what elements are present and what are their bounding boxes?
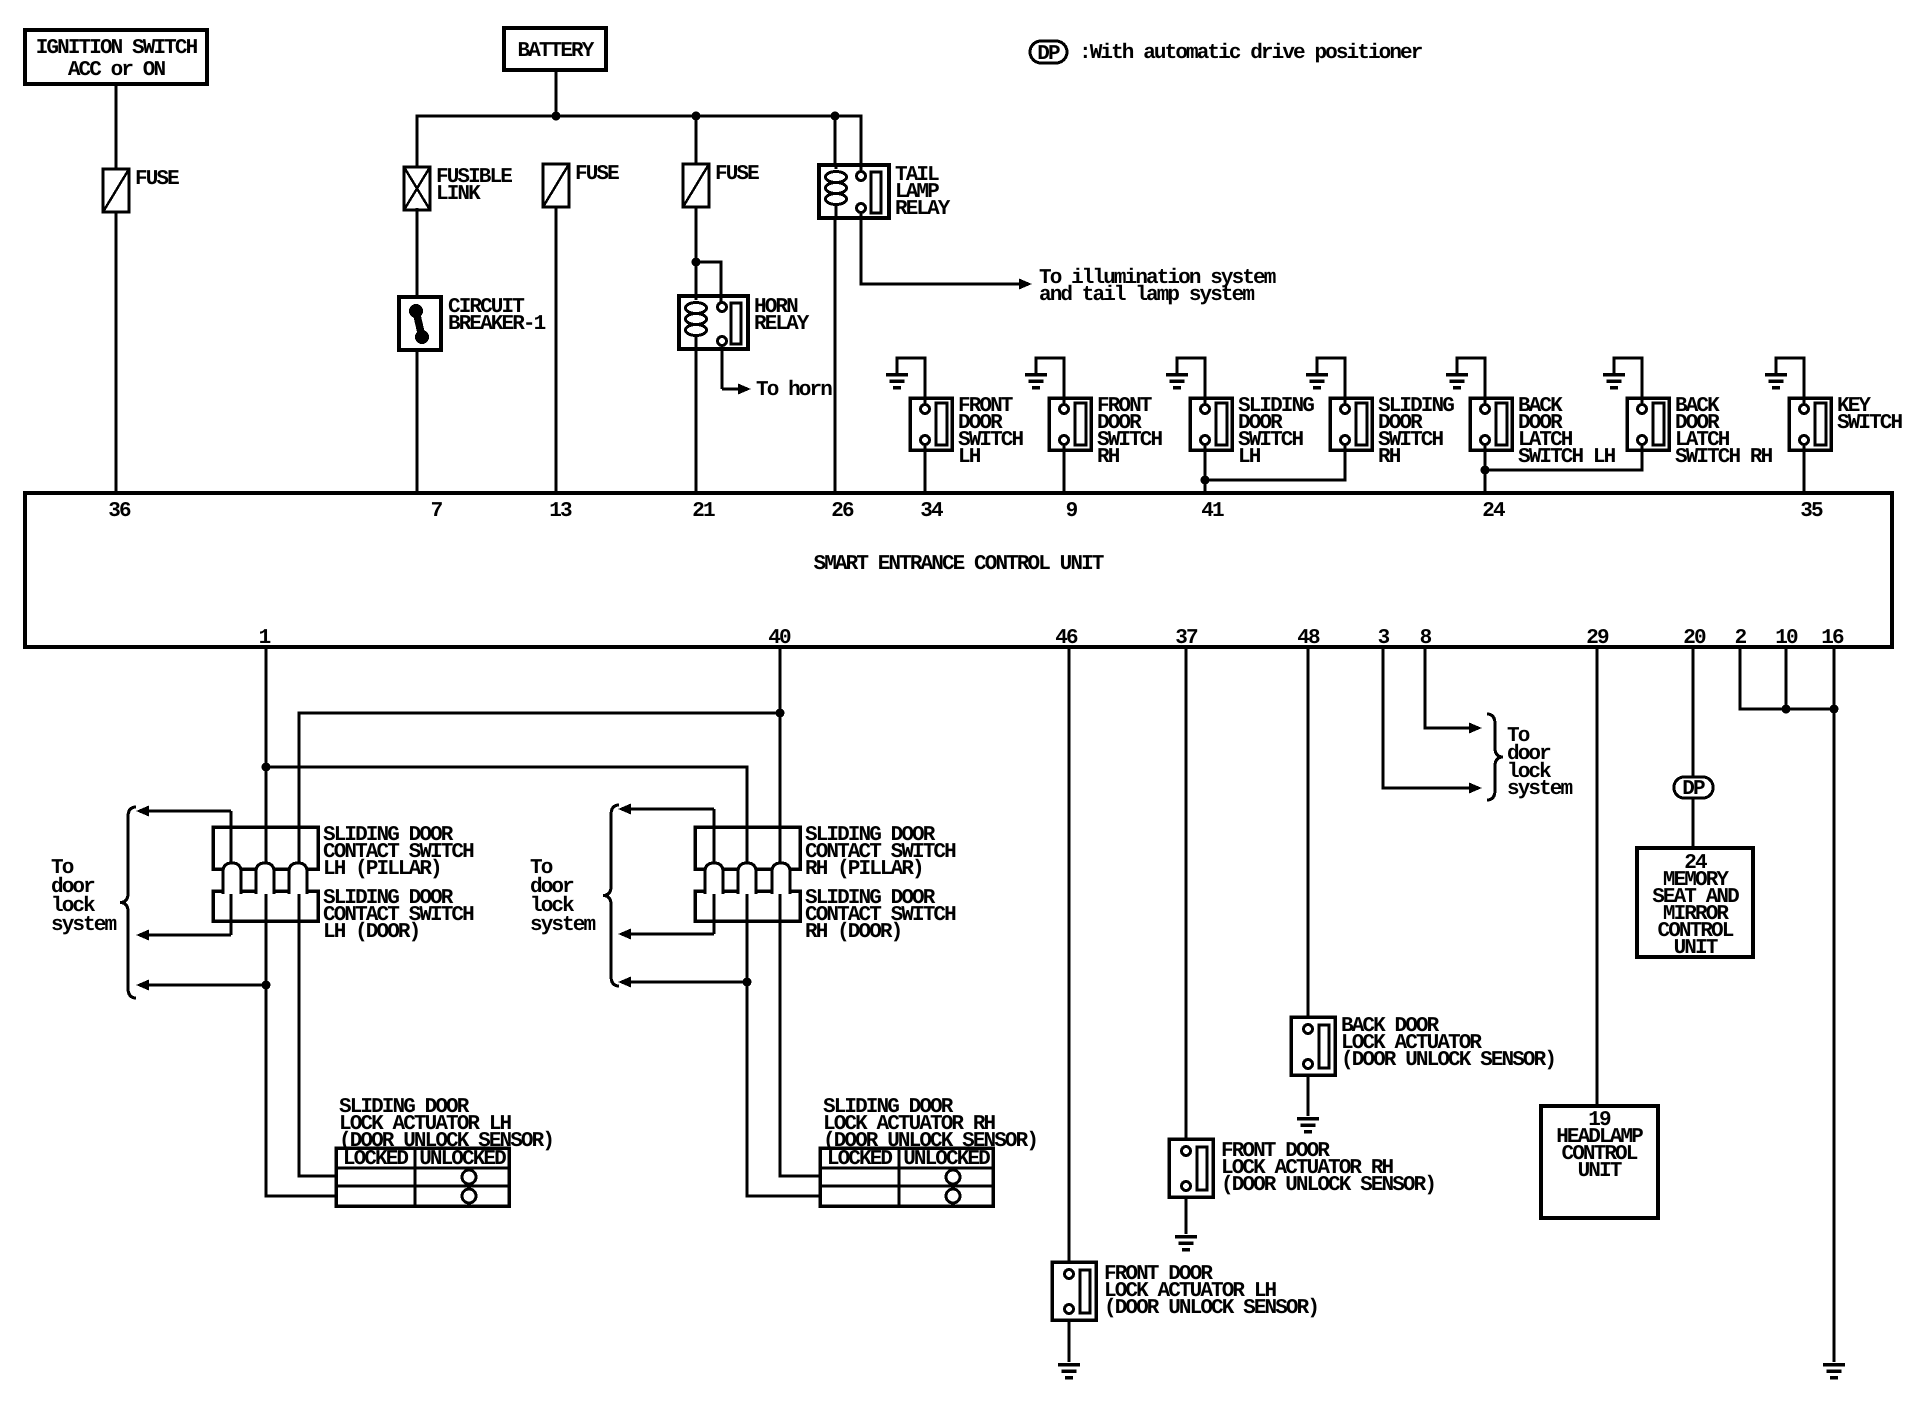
battery box — [504, 28, 606, 70]
svg-text:UNLOCKED: UNLOCKED — [419, 1148, 506, 1171]
svg-text:(DOOR UNLOCK SENSOR): (DOOR UNLOCK SENSOR) — [1104, 1297, 1318, 1320]
wire pin 29 to headlamp control unit — [1596, 647, 1599, 1106]
svg-text:LOCKED: LOCKED — [343, 1148, 409, 1171]
wire back door actuator to ground — [1307, 1075, 1310, 1116]
back door lock actuator — [1291, 1015, 1555, 1075]
text to door lock system LH — [51, 857, 117, 937]
svg-text:RH (PILLAR): RH (PILLAR) — [805, 858, 923, 881]
arrow LH mid to door lock system — [136, 930, 231, 941]
svg-text:20: 20 — [1683, 627, 1706, 650]
wire horn coil to pin 21 — [695, 349, 698, 493]
svg-text:and tail lamp system: and tail lamp system — [1039, 284, 1254, 307]
wire fusible link to breaker — [416, 208, 419, 297]
ignition switch box — [25, 30, 207, 84]
svg-text:13: 13 — [549, 500, 572, 523]
wire breaker to pin 7 — [416, 350, 419, 493]
junction bus relay coil — [831, 112, 840, 121]
svg-text:3: 3 — [1378, 627, 1390, 650]
wire sliding door switch RH — [1205, 444, 1345, 480]
wire fuse to pin 13 — [555, 207, 558, 493]
to horn arrow — [722, 345, 832, 402]
text to door lock system RH — [530, 857, 596, 937]
sliding door contact switch RH (pillar) box — [695, 827, 800, 869]
svg-text:(DOOR UNLOCK SENSOR): (DOOR UNLOCK SENSOR) — [1341, 1049, 1555, 1072]
svg-text:36: 36 — [108, 500, 131, 523]
svg-text:10: 10 — [1775, 627, 1798, 650]
svg-text:system: system — [1507, 778, 1573, 801]
ground back door latch switch RH — [1603, 358, 1642, 404]
svg-text:LINK: LINK — [436, 183, 481, 206]
text to door lock system right — [1507, 725, 1573, 801]
svg-text:LH (DOOR): LH (DOOR) — [323, 921, 419, 944]
svg-text:FUSE: FUSE — [135, 168, 179, 191]
front door switch RH — [1049, 395, 1163, 469]
DP legend text — [1079, 42, 1423, 65]
svg-text:BREAKER-1: BREAKER-1 — [448, 313, 546, 336]
wire pin 20 to DP — [1692, 647, 1695, 777]
junction battery bus — [552, 112, 561, 121]
wire battery to bus — [555, 70, 558, 116]
wire pin 46 to front door lock actuator LH — [1068, 647, 1071, 1262]
svg-text:DP: DP — [1037, 43, 1060, 66]
ground front door switch RH — [1025, 358, 1064, 404]
wire back door latch switch RH — [1485, 444, 1642, 470]
ground back door latch switch LH — [1446, 358, 1485, 404]
wire pin 1 trunk — [266, 647, 336, 1196]
svg-text:FUSE: FUSE — [715, 163, 759, 186]
wire RH prong1 column — [713, 809, 716, 934]
svg-text:system: system — [530, 914, 596, 937]
prong 3 RH — [772, 863, 790, 894]
ground front door lock actuator RH — [1175, 1237, 1197, 1250]
pin numbers bottom row — [259, 627, 1844, 650]
wire fuse to horn junction — [695, 207, 698, 296]
wire pin 3 arrow — [1383, 647, 1482, 794]
svg-text:26: 26 — [831, 500, 854, 523]
svg-text:SWITCH LH: SWITCH LH — [1518, 446, 1616, 469]
svg-text:RELAY: RELAY — [754, 313, 810, 336]
svg-text:SWITCH: SWITCH — [1837, 412, 1903, 435]
arrow RH top to door lock system — [618, 804, 714, 815]
junction pin 16 — [1830, 705, 1839, 714]
tail lamp relay — [819, 164, 951, 221]
svg-text:UNIT: UNIT — [1674, 937, 1718, 960]
key switch — [1789, 395, 1903, 450]
ground sliding door switch RH — [1306, 358, 1345, 404]
back door latch switch RH — [1627, 395, 1773, 469]
junction sliding door switches — [1201, 476, 1210, 485]
labels sliding door lock actuator LH — [339, 1096, 553, 1153]
brace LH to door lock system — [120, 807, 136, 998]
wire key switch to pin 35 — [1803, 444, 1806, 493]
wire pin40 branch to LH prong3 — [299, 713, 780, 1176]
svg-text:LH (PILLAR): LH (PILLAR) — [323, 858, 441, 881]
front door lock actuator LH — [1052, 1262, 1318, 1320]
wire back door latch switch LH to pin 24 — [1484, 444, 1487, 493]
junction pin1 arrow LH — [262, 981, 271, 990]
sliding door switch LH — [1190, 395, 1314, 469]
junction pin1 arrow RH — [743, 978, 752, 987]
svg-text:UNIT: UNIT — [1578, 1160, 1622, 1183]
ground front door switch LH — [886, 358, 925, 404]
fusible link — [404, 166, 512, 210]
svg-text:2: 2 — [1735, 627, 1747, 650]
ground back door lock actuator — [1297, 1119, 1319, 1132]
svg-text:1: 1 — [259, 627, 271, 650]
headlamp control unit — [1541, 1106, 1658, 1218]
svg-text:RH: RH — [1097, 446, 1120, 469]
wire pin 16 to ground — [1833, 647, 1836, 1362]
svg-text:IGNITION SWITCH: IGNITION SWITCH — [36, 37, 198, 60]
pin numbers top row — [108, 500, 1823, 523]
prong 1 LH — [223, 863, 241, 894]
ground key switch — [1765, 358, 1804, 404]
memory seat and mirror control unit — [1637, 848, 1753, 960]
svg-text:RH: RH — [1378, 446, 1401, 469]
wire pin 37 to front door lock actuator RH — [1185, 647, 1188, 1139]
labels sliding door contact switch LH — [323, 824, 474, 944]
svg-text:LOCKED: LOCKED — [827, 1148, 893, 1171]
wire DP to memory seat unit — [1692, 798, 1695, 848]
svg-text:DP: DP — [1682, 778, 1705, 801]
prong 2 RH — [738, 863, 756, 894]
svg-text:RH (DOOR): RH (DOOR) — [805, 921, 901, 944]
smart entrance control unit box — [25, 493, 1892, 647]
junction pin40 branch left — [776, 709, 785, 718]
sliding door lock actuator LH table — [336, 1148, 509, 1206]
svg-text:34: 34 — [920, 500, 943, 523]
svg-text:24: 24 — [1482, 500, 1505, 523]
svg-text:40: 40 — [768, 627, 791, 650]
svg-text:21: 21 — [692, 500, 715, 523]
junction back door latch switches — [1481, 466, 1490, 475]
svg-text:UNLOCKED: UNLOCKED — [903, 1148, 990, 1171]
labels sliding door contact switch RH — [805, 824, 956, 944]
svg-text:41: 41 — [1201, 500, 1224, 523]
svg-text:To horn: To horn — [756, 379, 832, 402]
ground sliding door switch LH — [1166, 358, 1205, 404]
battery bus wire — [417, 116, 861, 170]
junction bus fuse21 — [692, 112, 701, 121]
svg-text:FUSE: FUSE — [575, 163, 619, 186]
horn relay — [679, 296, 810, 349]
svg-text:29: 29 — [1586, 627, 1609, 650]
wire actuator LH to ground — [1068, 1320, 1071, 1362]
wire fuse to pin 36 — [115, 212, 118, 493]
wire pin1 branch to RH prong2 — [266, 767, 820, 1196]
sliding door switch RH — [1330, 395, 1454, 469]
junction horn branch — [692, 258, 701, 267]
svg-text:48: 48 — [1297, 627, 1320, 650]
wire branch to horn contact — [696, 262, 721, 303]
wire pin 40 trunk — [780, 647, 820, 1176]
DP legend symbol — [1030, 41, 1067, 66]
svg-text:ACC or ON: ACC or ON — [68, 59, 166, 82]
wire front door switch LH to pin 34 — [924, 444, 927, 493]
sliding door contact switch RH (door) box — [695, 891, 800, 921]
arrow LH bottom to door lock system — [136, 980, 266, 991]
wire sliding door switch LH to pin 41 — [1204, 444, 1207, 493]
wire pin 2 — [1740, 647, 1834, 709]
junction pin1 branch right — [262, 763, 271, 772]
to illumination arrow — [861, 212, 1276, 307]
fuse (battery feed 13) — [543, 163, 619, 207]
svg-text:RELAY: RELAY — [895, 198, 951, 221]
svg-text:SMART ENTRANCE CONTROL UNIT: SMART ENTRANCE CONTROL UNIT — [814, 553, 1104, 576]
sliding door lock actuator RH table — [820, 1148, 993, 1206]
svg-text:16: 16 — [1821, 627, 1844, 650]
wire pin 8 arrow — [1425, 647, 1482, 734]
svg-text:46: 46 — [1055, 627, 1078, 650]
arrow LH top to door lock system — [136, 806, 231, 817]
fuse (ignition circuit) — [103, 168, 179, 212]
wire front door switch RH to pin 9 — [1063, 444, 1066, 493]
svg-text:35: 35 — [1800, 500, 1823, 523]
wire tail relay coil to pin 26 — [834, 218, 837, 493]
svg-text:37: 37 — [1175, 627, 1198, 650]
DP marker memory seat — [1674, 777, 1713, 801]
front door lock actuator RH — [1169, 1139, 1435, 1197]
sliding door contact switch LH (door) box — [213, 891, 318, 921]
prong 1 RH — [705, 863, 723, 894]
ground front door lock actuator LH — [1058, 1365, 1080, 1378]
ground pin 16 — [1823, 1365, 1845, 1378]
svg-text:(DOOR UNLOCK SENSOR): (DOOR UNLOCK SENSOR) — [1221, 1174, 1435, 1197]
front door switch LH — [910, 395, 1024, 469]
wire pin 10 — [1785, 647, 1788, 709]
wire actuator RH to ground — [1185, 1197, 1188, 1234]
prong 2 LH — [256, 863, 274, 894]
fuse (horn circuit) — [683, 163, 759, 207]
labels sliding door lock actuator RH — [823, 1096, 1037, 1153]
svg-text::With automatic drive position: :With automatic drive positioner — [1079, 42, 1423, 65]
wire ignition to fuse — [115, 84, 118, 169]
brace RH to door lock system — [603, 805, 619, 986]
brace to door lock system right — [1487, 714, 1503, 800]
arrow RH bottom to door lock system — [618, 977, 747, 988]
back door latch switch LH — [1470, 395, 1616, 469]
svg-text:system: system — [51, 914, 117, 937]
svg-text:8: 8 — [1420, 627, 1432, 650]
svg-text:LH: LH — [958, 446, 981, 469]
wire LH prong1 column — [230, 811, 233, 935]
svg-text:9: 9 — [1066, 500, 1078, 523]
svg-text:BATTERY: BATTERY — [518, 40, 595, 63]
sliding door contact switch LH (pillar) box — [213, 827, 318, 869]
svg-text:LH: LH — [1238, 446, 1261, 469]
wire bus to tail relay coil — [834, 116, 837, 165]
wire pin 48 to back door lock actuator — [1307, 647, 1310, 1017]
prong 3 LH — [289, 863, 307, 894]
wire bus to fuse 21 — [695, 116, 698, 164]
junction pin 10 — [1782, 705, 1791, 714]
svg-text:7: 7 — [431, 500, 443, 523]
svg-text:SWITCH RH: SWITCH RH — [1675, 446, 1773, 469]
circuit breaker-1 — [399, 296, 546, 350]
arrow RH mid to door lock system — [618, 929, 714, 940]
